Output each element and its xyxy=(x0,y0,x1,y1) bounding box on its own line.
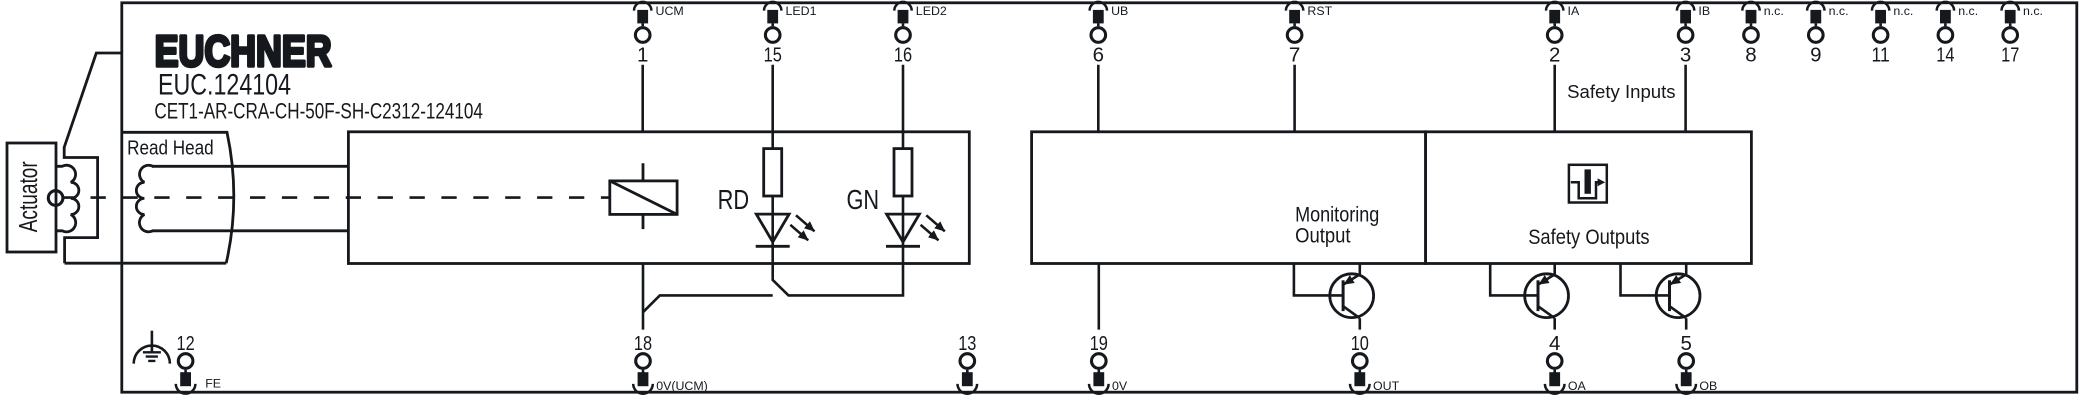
svg-text:UCM: UCM xyxy=(656,4,684,18)
svg-text:n.c.: n.c. xyxy=(1958,4,1978,18)
svg-text:3: 3 xyxy=(1680,43,1691,66)
svg-text:4: 4 xyxy=(1549,332,1560,355)
svg-text:OA: OA xyxy=(1568,379,1587,393)
svg-text:n.c.: n.c. xyxy=(1893,4,1913,18)
svg-text:18: 18 xyxy=(634,332,652,355)
svg-text:Read Head: Read Head xyxy=(127,138,214,160)
svg-text:EUC.124104: EUC.124104 xyxy=(158,69,291,102)
svg-text:13: 13 xyxy=(958,332,976,355)
svg-text:n.c.: n.c. xyxy=(1829,4,1849,18)
svg-text:14: 14 xyxy=(1936,43,1954,66)
svg-text:0V: 0V xyxy=(1112,379,1128,393)
svg-text:RST: RST xyxy=(1307,4,1332,18)
svg-text:OB: OB xyxy=(1699,379,1717,393)
svg-text:Safety Outputs: Safety Outputs xyxy=(1528,226,1649,249)
svg-text:Safety Inputs: Safety Inputs xyxy=(1567,82,1676,103)
svg-text:7: 7 xyxy=(1289,43,1300,66)
svg-text:2: 2 xyxy=(1549,43,1560,66)
svg-text:19: 19 xyxy=(1090,332,1108,355)
svg-text:IB: IB xyxy=(1698,4,1710,18)
svg-text:16: 16 xyxy=(894,43,912,66)
svg-text:RD: RD xyxy=(718,184,750,215)
svg-text:LED1: LED1 xyxy=(786,4,817,18)
svg-text:OUT: OUT xyxy=(1373,379,1400,393)
svg-text:15: 15 xyxy=(764,43,782,66)
svg-text:Output: Output xyxy=(1295,225,1351,248)
svg-text:UB: UB xyxy=(1111,4,1128,18)
svg-text:Monitoring: Monitoring xyxy=(1295,204,1379,227)
svg-text:6: 6 xyxy=(1093,43,1104,66)
svg-text:LED2: LED2 xyxy=(916,4,947,18)
svg-text:8: 8 xyxy=(1745,43,1756,66)
svg-text:1: 1 xyxy=(637,43,648,66)
svg-text:n.c.: n.c. xyxy=(2023,4,2043,18)
svg-text:Actuator: Actuator xyxy=(15,161,43,232)
svg-text:5: 5 xyxy=(1680,332,1691,355)
svg-text:0V(UCM): 0V(UCM) xyxy=(656,379,708,393)
svg-text:GN: GN xyxy=(847,184,880,215)
svg-text:9: 9 xyxy=(1810,43,1821,66)
svg-text:CET1-AR-CRA-CH-50F-SH-C2312-12: CET1-AR-CRA-CH-50F-SH-C2312-124104 xyxy=(154,99,483,124)
svg-text:n.c.: n.c. xyxy=(1764,4,1784,18)
svg-text:12: 12 xyxy=(177,332,195,355)
svg-text:17: 17 xyxy=(2001,43,2019,66)
svg-text:10: 10 xyxy=(1351,332,1369,355)
svg-text:11: 11 xyxy=(1872,43,1890,66)
svg-text:FE: FE xyxy=(205,377,221,391)
svg-text:IA: IA xyxy=(1568,4,1580,18)
